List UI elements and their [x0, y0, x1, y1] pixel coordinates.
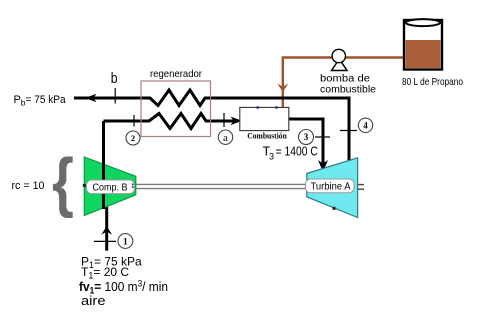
svg-text:4: 4 — [363, 121, 368, 131]
svg-text:b: b — [111, 70, 118, 87]
svg-text:fv1= 100 m3/ min: fv1= 100 m3/ min — [79, 279, 168, 296]
svg-text:= 75 kPa: = 75 kPa — [26, 94, 67, 106]
svg-text:80 L de Propano: 80 L de Propano — [402, 76, 463, 88]
svg-text:1: 1 — [123, 237, 128, 247]
svg-text:{: { — [52, 145, 74, 218]
svg-text:3: 3 — [269, 151, 274, 161]
svg-text:= 1400 C: = 1400 C — [276, 145, 318, 159]
svg-text:Comp. B: Comp. B — [93, 181, 128, 193]
svg-text:Turbine A: Turbine A — [311, 181, 351, 193]
svg-text:2: 2 — [131, 133, 135, 143]
svg-text:aire: aire — [81, 294, 106, 308]
svg-text:a: a — [223, 132, 228, 144]
svg-text:combustible: combustible — [320, 85, 376, 96]
svg-text:bomba de: bomba de — [320, 74, 370, 85]
svg-text:Combustión: Combustión — [247, 132, 287, 141]
svg-text:3: 3 — [304, 132, 309, 142]
svg-text:P: P — [14, 94, 21, 106]
svg-text:rc = 10: rc = 10 — [12, 180, 45, 192]
svg-text:regenerador: regenerador — [150, 68, 202, 80]
